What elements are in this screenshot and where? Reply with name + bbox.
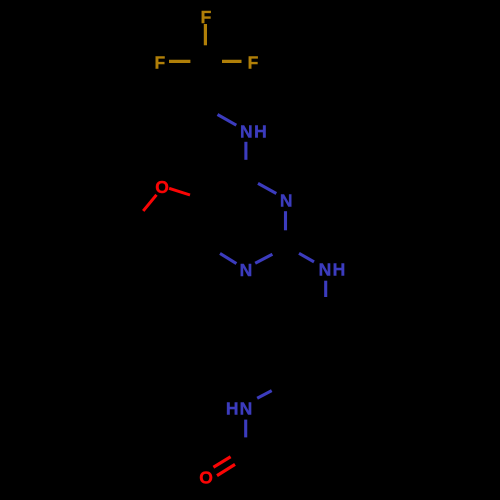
svg-text:N: N xyxy=(240,399,253,419)
bond C15=O16 line 1 (O half, upper red line of carbonyl double bond) xyxy=(213,457,230,467)
svg-text:N: N xyxy=(240,260,253,280)
svg-text:O: O xyxy=(199,468,213,488)
svg-text:O: O xyxy=(155,177,169,197)
bond C4a-N3 (N half, ring diagonal) xyxy=(220,253,236,263)
bond C4-N1 (N half, ring diagonal) xyxy=(258,183,276,193)
svg-text:F: F xyxy=(154,53,165,73)
bond O7-C7a (O half, diagonal right) xyxy=(169,188,190,195)
svg-text:N: N xyxy=(319,260,332,280)
svg-text:H: H xyxy=(254,122,267,142)
bond N1-C2 (N half, vertical ring bond) xyxy=(284,211,287,230)
bond C9-F2 (F half, horizontal left) xyxy=(169,60,190,63)
bond C13-N14 (N half, chain diagonal into amide HN) xyxy=(257,391,272,399)
bond C8-N5 (N half, diagonal to top NH) xyxy=(218,115,237,126)
svg-text:H: H xyxy=(333,260,346,280)
svg-text:N: N xyxy=(280,191,293,211)
bond C15=O16 line 2 (O half, lower red line of carbonyl double bond) xyxy=(217,464,235,475)
svg-text:N: N xyxy=(240,122,253,142)
bond N3-C2 (N half, ring diagonal) xyxy=(255,254,272,263)
bond C2-N10 (N half, exocyclic diagonal to NH) xyxy=(299,253,314,262)
bond N14-C15 (N half, vertical to carbonyl carbon) xyxy=(244,420,247,438)
bond N10-C11 (N half, vertical chain bond) xyxy=(324,281,327,297)
svg-text:H: H xyxy=(226,399,239,419)
svg-text:F: F xyxy=(248,53,259,73)
bond C9-F1 (F half, vertical) xyxy=(204,24,207,45)
bond O7-C6 (O half, diagonal lower-left) xyxy=(143,195,156,211)
bond N5-C4 (N half, vertical) xyxy=(244,142,247,160)
bond C9-F3 (F half, horizontal right) xyxy=(222,60,242,63)
